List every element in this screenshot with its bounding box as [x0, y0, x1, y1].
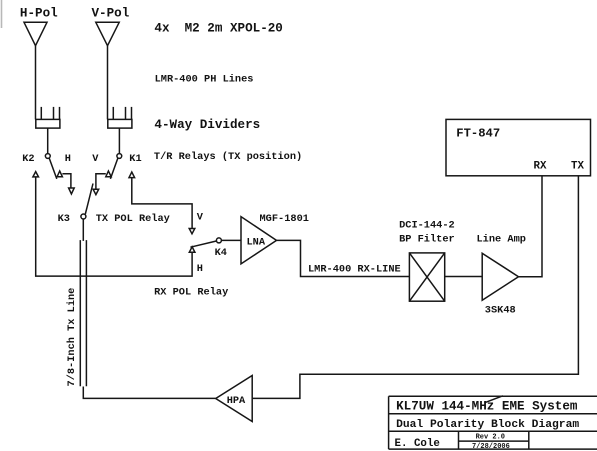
svg-text:7/8-Inch Tx Line: 7/8-Inch Tx Line: [66, 288, 78, 387]
wire LNA output to BP filter: [277, 240, 410, 276]
arrow up (K2 RX throw): [33, 172, 39, 177]
svg-text:V: V: [92, 153, 99, 165]
wire K2 TX contact to down arrow: [62, 174, 71, 188]
arrow down (V RX into K4): [189, 229, 195, 234]
wire 7/8 hardline (twin line right): [85, 240, 87, 386]
wire ANT-V feedline: [107, 46, 109, 120]
arrow down (H TX feed): [69, 188, 75, 194]
relay K4 H contact (triangle): [189, 247, 195, 253]
svg-text:K2: K2: [22, 153, 34, 165]
svg-text:Dual Polarity Block Diagram: Dual Polarity Block Diagram: [396, 419, 579, 431]
antenna ANT-H (H-Pol): [24, 22, 47, 45]
filter FL1 (DCI-144-2 BP filter box with X): [409, 253, 444, 301]
wire line amp output up to FT-847 RX: [519, 176, 543, 277]
relay K1 pole: [117, 154, 122, 159]
svg-text:H: H: [197, 263, 203, 275]
svg-text:E. Cole: E. Cole: [395, 438, 440, 450]
divider DIV-V (4-way divider, V): [108, 107, 132, 128]
wire DIV-V output to K1: [118, 128, 120, 153]
svg-text:MGF-1801: MGF-1801: [260, 213, 309, 225]
relay K2 pole: [45, 154, 50, 159]
svg-text:H: H: [65, 153, 71, 165]
relay K1 armature: [110, 158, 117, 179]
stray pen mark over title: [484, 396, 502, 403]
relay K4 pole: [216, 238, 221, 243]
wire FT-847 TX down right side and across to HPA: [252, 176, 578, 399]
svg-text:3SK48: 3SK48: [485, 305, 516, 317]
svg-text:H-Pol: H-Pol: [20, 6, 58, 20]
wire DIV-H output to K2: [47, 128, 49, 153]
relay K2 TX contact (triangle): [57, 171, 62, 177]
wire 7/8 hardline (twin line left): [79, 240, 81, 386]
svg-text:BP Filter: BP Filter: [399, 233, 455, 245]
relay K1 TX contact (triangle): [106, 171, 111, 177]
wire K2 RX rail down and across to K4 H contact: [36, 177, 192, 276]
relay K3 pole: [81, 214, 86, 219]
title block outline: [389, 396, 597, 449]
svg-text:K3: K3: [58, 213, 70, 225]
svg-text:T/R Relays (TX position): T/R Relays (TX position): [154, 151, 302, 163]
op-amp U2 Line Amp (3SK48): [482, 253, 518, 300]
svg-text:TX POL Relay: TX POL Relay: [96, 213, 170, 225]
arrow down (V TX feed): [93, 189, 99, 194]
box FT-847 transceiver: [446, 119, 591, 175]
divider DIV-H (4-way divider, H): [36, 107, 60, 128]
svg-text:RX POL Relay: RX POL Relay: [154, 286, 228, 298]
wire K3 pole to hardline: [82, 219, 84, 241]
svg-text:Line Amp: Line Amp: [477, 233, 526, 245]
wire BP filter to line amp: [445, 276, 483, 278]
svg-text:K4: K4: [215, 247, 227, 259]
svg-text:LMR-400 PH Lines: LMR-400 PH Lines: [155, 73, 254, 85]
svg-text:V-Pol: V-Pol: [92, 6, 130, 20]
screen artifact left edge: [1, 0, 3, 28]
arrow up (K1 TX throw from rig): [129, 172, 135, 178]
svg-text:V: V: [197, 212, 204, 224]
svg-text:KL7UW 144-MHz EME System: KL7UW 144-MHz EME System: [396, 399, 578, 413]
relay K4 armature: [190, 241, 216, 247]
svg-text:Rev 2.0: Rev 2.0: [476, 434, 505, 442]
relay K3 armature: [85, 184, 93, 215]
relay K2 armature: [49, 158, 57, 179]
svg-text:HPA: HPA: [227, 395, 246, 407]
svg-text:LNA: LNA: [247, 236, 266, 248]
svg-text:FT-847: FT-847: [456, 127, 500, 141]
svg-text:LMR-400 RX-LINE: LMR-400 RX-LINE: [308, 263, 401, 275]
svg-text:TX: TX: [571, 161, 584, 173]
wire K1 TX contact to down arrow: [96, 174, 106, 190]
svg-text:7/28/2006: 7/28/2006: [472, 443, 510, 451]
op-amp LNA (MGF-1801): [241, 217, 277, 264]
svg-text:4x M2 2m XPOL-20: 4x M2 2m XPOL-20: [154, 21, 282, 35]
wire K1 up-arrow to V down arrow at K4: [132, 178, 192, 229]
svg-text:RX: RX: [534, 161, 547, 173]
svg-text:K1: K1: [129, 153, 141, 165]
wire ANT-H feedline: [35, 46, 37, 120]
antenna ANT-V (V-Pol): [96, 22, 119, 45]
wire HPA output to hardline: [83, 387, 215, 399]
wire K4 pole to LNA input: [221, 239, 241, 241]
svg-text:DCI-144-2: DCI-144-2: [399, 220, 455, 232]
op-amp HPA (points left): [216, 376, 253, 422]
svg-text:4-Way Dividers: 4-Way Dividers: [154, 118, 260, 132]
